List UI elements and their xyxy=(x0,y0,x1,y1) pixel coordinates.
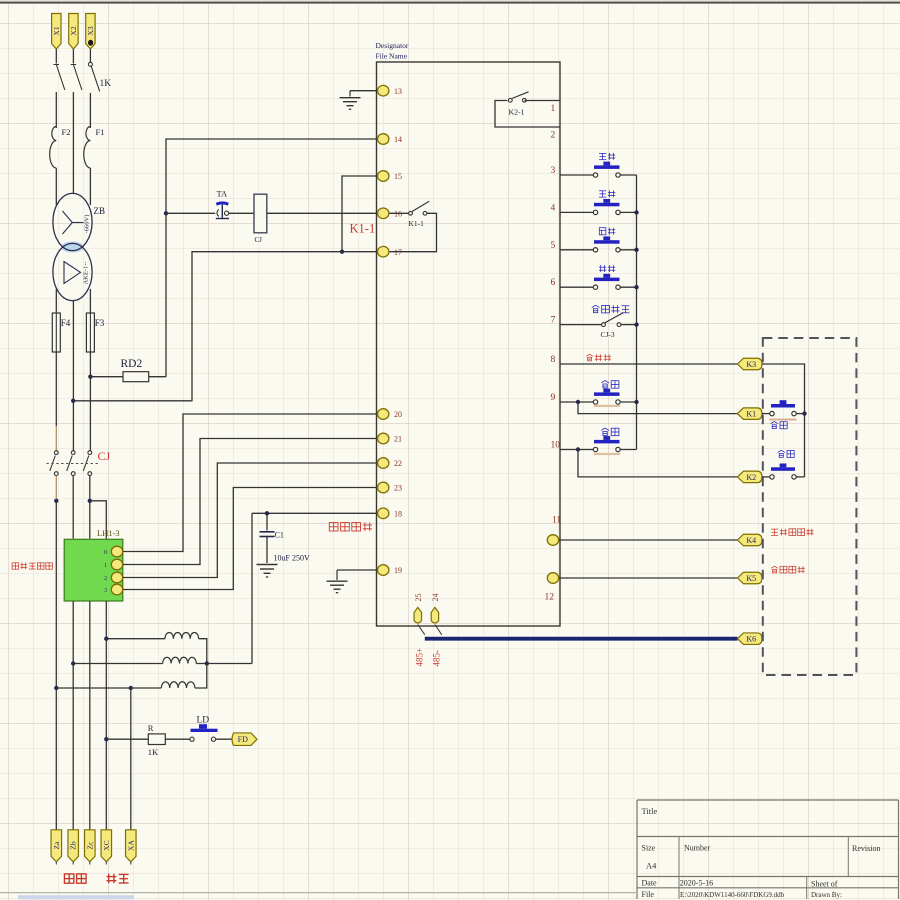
svg-text:23: 23 xyxy=(394,484,402,493)
CT pin 2 xyxy=(104,572,123,583)
svg-text:1: 1 xyxy=(104,562,107,569)
wire remote open to bus xyxy=(796,476,805,478)
wire CT pin 0 to box pin 20 xyxy=(123,414,377,552)
fuse F1 xyxy=(84,127,91,169)
svg-text:CJ: CJ xyxy=(255,236,263,244)
wire K3 into box xyxy=(762,364,805,477)
svg-text:17: 17 xyxy=(394,248,402,257)
wire pin6 to button xyxy=(560,286,594,288)
wire Zb column xyxy=(72,601,74,830)
junction L3 left XA xyxy=(129,686,133,690)
wire riser to pin14 xyxy=(166,139,377,377)
wire K1 to remote button xyxy=(762,413,770,415)
wire pin19 xyxy=(337,569,377,571)
remote close button xyxy=(770,400,796,416)
wire phase A below ZB xyxy=(55,289,57,313)
right button bus xyxy=(636,175,638,450)
wire button 5 to bus xyxy=(620,249,637,251)
label CJ-3 xyxy=(601,330,615,339)
wire phase C to F1 xyxy=(89,93,91,128)
contactor CJ pole B xyxy=(67,451,75,476)
svg-text:K1: K1 xyxy=(746,410,756,419)
wire TA to CJ coil xyxy=(229,212,254,214)
svg-text:A4: A4 xyxy=(646,861,657,871)
svg-text:K2-1: K2-1 xyxy=(509,108,525,117)
wire CJ pole A down xyxy=(55,476,57,501)
box pin 18 xyxy=(378,508,403,519)
bus RS485 xyxy=(425,637,738,641)
junction phase B xyxy=(71,399,75,403)
box pin 14 xyxy=(378,134,403,145)
connector X1 xyxy=(52,14,61,50)
svg-text:6: 6 xyxy=(551,278,556,288)
wire pin3 to button xyxy=(560,174,594,176)
port K5 xyxy=(738,572,763,584)
svg-text:Drawn By:: Drawn By: xyxy=(811,891,842,899)
svg-text:FD: FD xyxy=(238,735,248,744)
svg-text:X1: X1 xyxy=(52,26,61,35)
svg-text:Designator: Designator xyxy=(376,41,409,50)
wire Zc column xyxy=(89,601,91,830)
svg-text:K1-1: K1-1 xyxy=(350,222,376,236)
contact CJ-3 xyxy=(602,313,624,327)
svg-text:10uF 250V: 10uF 250V xyxy=(274,554,310,563)
svg-text:R: R xyxy=(148,723,154,733)
wire remote close to bus xyxy=(796,413,805,415)
label 1K value xyxy=(148,747,159,757)
svg-text:Revision: Revision xyxy=(852,844,880,853)
wire pin8 to K3 xyxy=(560,363,738,365)
junction button bus xyxy=(634,248,638,252)
wire pin15 branch xyxy=(342,176,377,252)
box pin 17 xyxy=(378,246,403,257)
resistor R xyxy=(148,734,165,745)
svg-text:K1-1: K1-1 xyxy=(409,219,425,228)
port K2 xyxy=(738,471,763,483)
svg-text:7: 7 xyxy=(551,316,556,326)
svg-text:Za: Za xyxy=(52,841,61,850)
wire pin13 xyxy=(350,90,377,92)
label F1 xyxy=(96,127,105,137)
underline row 10 xyxy=(594,453,620,455)
label common red xyxy=(586,354,611,361)
box pin 13 xyxy=(378,85,403,96)
svg-text:Zc: Zc xyxy=(85,841,94,850)
box pin 16 xyxy=(378,208,403,219)
label 485- xyxy=(431,650,441,667)
button row 10 xyxy=(593,436,620,452)
wire contact to pin2 xyxy=(495,101,560,128)
junction phase A xyxy=(54,499,58,503)
svg-text:22: 22 xyxy=(394,459,402,468)
inductor L2 xyxy=(163,657,197,663)
junction pin9 xyxy=(576,400,580,404)
bus entry 24 xyxy=(435,625,442,635)
box pin 24 xyxy=(431,594,440,623)
label CJ-3 signal xyxy=(592,305,630,313)
breaker 1K pole B xyxy=(71,65,82,91)
title block xyxy=(637,800,899,899)
svg-text:4: 4 xyxy=(551,203,556,213)
connector Zb xyxy=(68,830,79,865)
box pin number 5 xyxy=(551,241,556,251)
box pin 22 xyxy=(378,458,403,469)
svg-text:5: 5 xyxy=(551,241,556,251)
label open btn xyxy=(601,428,619,436)
wire K2 to remote button xyxy=(762,476,770,478)
wire F2 to transformer xyxy=(55,168,57,205)
wire junction to TA xyxy=(166,212,215,214)
svg-text:16: 16 xyxy=(394,210,402,219)
inductor L1 xyxy=(165,632,199,638)
svg-text:20: 20 xyxy=(394,410,402,419)
wire pin16 to contact xyxy=(390,212,409,214)
svg-text:485+: 485+ xyxy=(414,648,424,667)
box pin 12 ellipse xyxy=(547,573,558,584)
svg-text:E:\2020\KDW1140-660\FDKG9.ddb: E:\2020\KDW1140-660\FDKG9.ddb xyxy=(680,891,785,899)
box pin number 11 xyxy=(552,516,561,526)
svg-text:XA: XA xyxy=(126,840,135,851)
svg-text:25: 25 xyxy=(414,594,423,602)
svg-text:K4: K4 xyxy=(746,536,756,545)
label close btn xyxy=(601,381,619,389)
label ZB xyxy=(94,206,106,216)
svg-text:14: 14 xyxy=(394,135,402,144)
wire phase A to F2 xyxy=(55,92,57,128)
wire L1 left xyxy=(106,638,165,640)
junction R row xyxy=(104,737,108,741)
contact K2-1 xyxy=(508,92,528,102)
svg-text:3: 3 xyxy=(551,166,556,176)
port FD xyxy=(232,733,257,746)
label C1 value xyxy=(274,554,310,563)
box pin 19 xyxy=(378,565,403,576)
connector Zc xyxy=(85,830,96,865)
wire CT pin 1 to box pin 21 xyxy=(123,439,377,565)
label K2-1 xyxy=(509,108,525,117)
wire phase B below ZB xyxy=(72,301,74,451)
svg-text:13: 13 xyxy=(394,87,402,96)
svg-text:21: 21 xyxy=(394,435,402,444)
junction button bus xyxy=(634,285,638,289)
svg-text:3: 3 xyxy=(104,587,107,594)
coil CJ xyxy=(254,194,267,233)
inductor L3 xyxy=(161,682,195,688)
svg-text:X2: X2 xyxy=(69,26,78,35)
wire R to LD xyxy=(165,738,190,740)
label signal xyxy=(107,874,129,884)
svg-text:2: 2 xyxy=(104,575,107,582)
svg-text:24: 24 xyxy=(431,594,440,602)
port K6 xyxy=(738,633,763,645)
wire L3 right xyxy=(195,664,207,689)
fuse RD2 xyxy=(123,372,149,382)
label K1-1 small xyxy=(409,219,425,228)
svg-text:18: 18 xyxy=(394,510,402,519)
svg-text:K2: K2 xyxy=(746,473,756,482)
CT pin 0 xyxy=(104,546,123,557)
ground pin13 xyxy=(340,91,361,110)
junction L1 left xyxy=(104,637,108,641)
svg-text:RD2: RD2 xyxy=(121,358,143,370)
svg-text:15: 15 xyxy=(394,172,402,181)
box pin 21 xyxy=(378,433,403,444)
port K3 xyxy=(738,358,763,370)
box pin number 4 xyxy=(551,203,556,213)
capacitor C1 xyxy=(260,513,275,563)
junction C1 xyxy=(265,511,269,515)
junction remote bus xyxy=(802,411,806,415)
label R xyxy=(148,723,154,733)
junction RD2 on phase C xyxy=(88,375,92,379)
port K1 xyxy=(738,408,763,420)
wire pin9 to button xyxy=(560,401,594,403)
button LD xyxy=(190,724,218,741)
CT pin 3 xyxy=(104,584,123,595)
svg-text:0: 0 xyxy=(104,549,107,556)
svg-text:Date: Date xyxy=(642,879,658,888)
fuse F3 xyxy=(86,313,94,352)
wire branch to CT input xyxy=(90,501,107,539)
label K5 red xyxy=(771,566,805,573)
wire CJ coil to pin16 xyxy=(267,212,377,214)
box pin 23 xyxy=(378,482,403,493)
wire F4 to contactor xyxy=(55,352,57,451)
svg-text:F2: F2 xyxy=(62,127,71,137)
wire phase C to RD2 xyxy=(90,376,123,378)
label RD2 xyxy=(121,358,143,370)
wire L1 right xyxy=(199,639,207,664)
wire Za column xyxy=(55,688,57,830)
taskbar sliver xyxy=(18,895,134,899)
label button 4 xyxy=(599,190,615,197)
top window border line xyxy=(0,0,900,3)
label button 3 xyxy=(599,153,615,160)
wire pin11 to K4 xyxy=(559,539,738,541)
breaker 1K pole A xyxy=(54,65,65,91)
button row 4 xyxy=(593,199,620,215)
fuse F2 xyxy=(50,127,57,169)
junction pin17 wire xyxy=(340,250,344,254)
wire L2 right xyxy=(196,663,252,665)
label F3 xyxy=(95,318,105,328)
svg-text:-660V): -660V) xyxy=(84,215,91,234)
wire pin5 to button xyxy=(560,249,594,251)
svg-text:K3: K3 xyxy=(746,360,756,369)
contactor CJ pole C xyxy=(83,451,91,476)
wire pin18 xyxy=(252,512,377,514)
label CT chinese xyxy=(12,563,52,570)
svg-text:LH1-3: LH1-3 xyxy=(97,528,120,538)
dashed control box xyxy=(763,338,857,675)
wire contact to pin17 xyxy=(390,213,437,251)
wire CJ pole B down xyxy=(72,476,74,539)
svg-text:1K: 1K xyxy=(148,747,159,757)
svg-text:Sheet of: Sheet of xyxy=(811,880,838,889)
label TA xyxy=(217,189,229,199)
label LD xyxy=(197,716,210,726)
wire pin10 branch to K2 xyxy=(578,450,738,477)
button row 6 xyxy=(593,274,620,290)
label leakage lockout xyxy=(329,522,372,531)
junction pin10 xyxy=(576,447,580,451)
CT pin 1 xyxy=(104,559,123,570)
svg-text:485-: 485- xyxy=(431,650,441,667)
svg-text:F4: F4 xyxy=(61,318,71,328)
svg-text:Size: Size xyxy=(642,844,656,853)
label CJ coil xyxy=(255,236,263,244)
contactor CJ linkage xyxy=(47,463,99,465)
label remote open xyxy=(778,450,795,457)
svg-text:AKE-1--: AKE-1-- xyxy=(83,261,90,284)
junction TA row xyxy=(164,211,168,215)
breaker 1K pole C xyxy=(88,62,99,91)
CT block LH1-3 xyxy=(64,539,123,601)
svg-text:2020-5-16: 2020-5-16 xyxy=(680,879,713,888)
connector Za xyxy=(51,830,62,865)
svg-text:C1: C1 xyxy=(275,531,284,540)
svg-text:TA: TA xyxy=(217,189,229,199)
junction button bus xyxy=(634,322,638,326)
svg-text:Number: Number xyxy=(684,844,711,853)
fuse F4 xyxy=(52,313,60,352)
wire pin10 to button xyxy=(560,449,594,451)
svg-text:Zb: Zb xyxy=(69,841,78,850)
svg-text:X3: X3 xyxy=(86,26,95,35)
label button 5 xyxy=(599,228,615,235)
box pin number 9 xyxy=(551,393,556,403)
junction coil bus xyxy=(205,661,209,665)
wire pin1 to contact xyxy=(525,100,561,102)
wire L2 left xyxy=(73,663,163,665)
wire F3 to contactor xyxy=(89,352,91,451)
junction L2 left xyxy=(71,661,75,665)
label button 6 xyxy=(599,265,615,272)
wire RD2 to riser xyxy=(149,376,166,378)
svg-text:12: 12 xyxy=(545,593,555,603)
box pin number 12 xyxy=(545,593,555,603)
underline row 9 xyxy=(594,405,620,407)
connector X3 xyxy=(86,14,95,50)
box pin 11 ellipse xyxy=(547,535,558,546)
junction button bus xyxy=(634,400,638,404)
svg-text:LD: LD xyxy=(197,716,210,726)
box pin number 10 xyxy=(551,441,561,451)
wire button 10 to bus xyxy=(620,449,637,451)
junction button bus xyxy=(634,210,638,214)
svg-text:CJ-3: CJ-3 xyxy=(601,330,615,339)
label CJ xyxy=(98,449,111,463)
wire CT pin 3 to box pin 23 xyxy=(123,488,377,590)
label F4 xyxy=(61,318,71,328)
connector XA xyxy=(126,830,137,865)
button row 3 xyxy=(593,162,620,178)
bus entry 25 xyxy=(418,625,425,635)
connector XC xyxy=(101,830,112,865)
label File Name xyxy=(376,52,408,61)
label remote close xyxy=(771,422,788,429)
wire pin12 to K5 xyxy=(559,577,738,579)
svg-text:File Name: File Name xyxy=(376,52,408,61)
svg-text:F1: F1 xyxy=(96,127,105,137)
box pin number 2 xyxy=(551,131,556,141)
box pin number 7 xyxy=(551,316,556,326)
wire button 4 to bus xyxy=(620,211,637,213)
underline remote close xyxy=(770,419,797,421)
svg-text:9: 9 xyxy=(551,393,556,403)
svg-text:K6: K6 xyxy=(746,635,756,644)
wire CT pin 2 to box pin 22 xyxy=(123,463,377,578)
wire button 9 to bus xyxy=(620,401,637,403)
button row 5 xyxy=(593,236,620,252)
wire X3 to switch xyxy=(89,49,91,62)
wire L3 left xyxy=(56,687,161,689)
label Designator xyxy=(376,41,409,50)
label LH1-3 xyxy=(97,528,120,538)
connector X2 xyxy=(69,14,78,50)
wire X1 to switch xyxy=(55,49,57,63)
svg-text:F3: F3 xyxy=(95,318,105,328)
wire LD to FD xyxy=(216,738,234,740)
sheet symbol box xyxy=(377,62,561,626)
label C1 xyxy=(275,531,284,540)
label F2 xyxy=(62,127,71,137)
sheet bottom border xyxy=(0,892,637,894)
wire coil bus to pin18 riser xyxy=(251,513,253,663)
junction L3 left phase A xyxy=(54,686,58,690)
wire button 6 to bus xyxy=(620,286,637,288)
contact K1-1 xyxy=(409,201,430,215)
svg-text:File: File xyxy=(642,890,655,899)
svg-text:K5: K5 xyxy=(746,574,756,583)
wire F1 to transformer xyxy=(89,168,91,205)
svg-text:CJ: CJ xyxy=(98,449,111,463)
label 1K xyxy=(100,79,112,89)
box pin number 3 xyxy=(551,166,556,176)
wire phase A bypass xyxy=(55,501,57,688)
svg-text:10: 10 xyxy=(551,441,561,451)
wire XC column xyxy=(105,601,107,830)
junction phase C branch xyxy=(88,499,92,503)
svg-text:11: 11 xyxy=(552,516,561,526)
label lighting xyxy=(64,874,86,883)
box pin 20 xyxy=(378,409,403,420)
box pin number 1 xyxy=(551,104,556,114)
wire XA column xyxy=(130,688,132,830)
box pin number 6 xyxy=(551,278,556,288)
port K4 xyxy=(738,534,763,546)
remote open button xyxy=(770,464,796,480)
svg-text:19: 19 xyxy=(394,566,402,575)
wire CJ pole C down xyxy=(89,476,91,539)
svg-text:2: 2 xyxy=(551,131,556,141)
svg-text:8: 8 xyxy=(551,355,556,365)
svg-text:1K: 1K xyxy=(100,79,112,89)
label K4 red xyxy=(771,529,814,536)
button row 9 xyxy=(593,389,620,405)
wire phase C below ZB xyxy=(89,289,91,313)
svg-text:Title: Title xyxy=(642,806,658,816)
ground pin19 xyxy=(327,570,348,593)
box pin number 8 xyxy=(551,355,556,365)
wire contact to bus xyxy=(621,324,637,326)
wire pin17 to phase B xyxy=(73,252,376,401)
label K1-1 red xyxy=(350,222,376,236)
button TA xyxy=(216,203,229,219)
label 485+ xyxy=(414,648,424,667)
box pin 25 xyxy=(414,594,423,623)
wire pin4 to button xyxy=(560,211,594,213)
